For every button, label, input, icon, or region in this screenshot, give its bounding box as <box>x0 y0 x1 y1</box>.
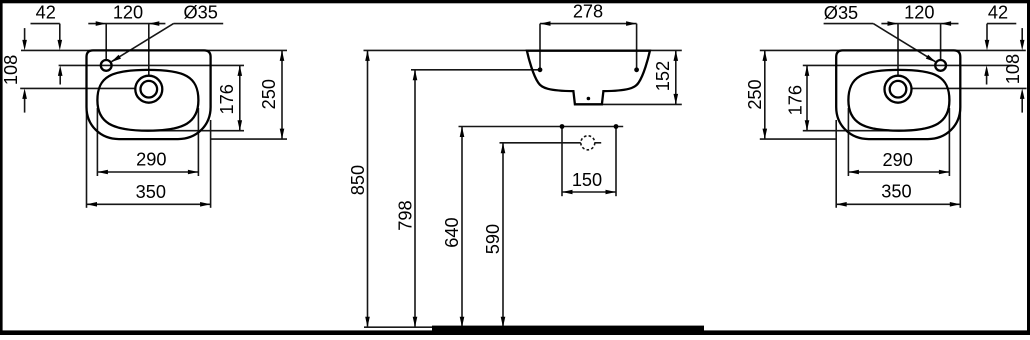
svg-text:798: 798 <box>395 200 415 230</box>
right view: dim 176 line <box>806 65 808 130</box>
right view: dim 290 line <box>848 171 949 173</box>
left view: dim 250 arrow down <box>280 129 285 140</box>
elevation: extension line fixing holes level <box>411 69 540 71</box>
right view: dim 108 lower arrow tail <box>1021 96 1023 112</box>
elevation: dim 152 arrow down <box>674 94 679 105</box>
left view: dim 42 arrow up <box>58 65 63 76</box>
elevation: dim 590 arrow up <box>501 143 506 154</box>
svg-text:176: 176 <box>217 84 237 114</box>
left view: dim 290 line <box>97 171 198 173</box>
right view: dim 290 arrow left <box>939 170 950 175</box>
elevation: left bolt dot <box>560 124 565 129</box>
left view: extension line bowl bottom tangent <box>148 130 244 132</box>
svg-text:Ø35: Ø35 <box>184 3 218 23</box>
left view: extension line bowl right vertical <box>197 108 199 176</box>
left view: extension line basin top edge <box>21 49 287 51</box>
right view: dim 250 arrow down <box>763 129 768 140</box>
right view: dim 250 arrow up <box>763 50 768 61</box>
left view: dim 290 arrow left <box>97 170 108 175</box>
elevation: dim 798 line <box>414 70 416 327</box>
right view: dim 42 lower arrow tail <box>986 75 988 85</box>
svg-text:590: 590 <box>483 224 503 254</box>
elevation: dim 640 arrow up <box>460 127 465 138</box>
left view: dim 250 line <box>281 50 283 139</box>
right view: basin outer outline <box>836 50 960 139</box>
svg-text:120: 120 <box>904 3 934 23</box>
left plan view group <box>20 21 287 208</box>
elevation: extension line waste stub <box>595 142 601 144</box>
elevation: dim 152 line <box>675 50 677 104</box>
left view: extension line basin left vertical <box>86 100 88 208</box>
left view: dim 290 arrow right <box>188 170 199 175</box>
frame border right <box>1027 0 1030 335</box>
right view: drain inner circle <box>890 81 907 98</box>
right view: extension line through tap hole centre <box>803 64 988 66</box>
right view: leader O35 arrowhead <box>926 55 936 63</box>
elevation: dim 590 line <box>502 143 504 327</box>
left view: extension line basin bottom edge <box>211 138 287 140</box>
elevation: extension line bolts level <box>459 126 624 128</box>
right view: leader O35 diagonal <box>873 24 935 62</box>
left view: extension line bowl left vertical <box>96 108 98 176</box>
left view: dim 108 lower arrow tail <box>24 96 26 112</box>
left view: dim 176 arrow up <box>238 65 243 76</box>
svg-text:152: 152 <box>653 61 673 91</box>
left view: basin outer outline <box>87 50 211 139</box>
left view: extension line to drain centre <box>20 87 136 89</box>
centre elevation group <box>364 21 705 331</box>
right plan view group (mirrored) <box>760 21 1027 208</box>
elevation: dim 590 arrow down <box>501 317 506 328</box>
right view: dim 176 arrow up <box>805 65 810 76</box>
left view: dim 350 arrow left <box>87 202 98 207</box>
left view: dim 350 line <box>87 203 211 205</box>
svg-text:42: 42 <box>988 3 1008 23</box>
elevation: dim 150 arrow left <box>562 190 573 195</box>
elevation: dim 850 arrow up <box>365 50 370 61</box>
frame border left <box>0 0 3 335</box>
elevation: dim 850 line <box>367 50 369 327</box>
right view: extension line basin right vertical <box>835 120 837 208</box>
elevation: dim 278 right extension <box>636 24 638 68</box>
right view: extension line bowl left vertical <box>948 108 950 176</box>
right view: dim 350 line <box>836 203 960 205</box>
elevation: dim 150 line <box>562 191 616 193</box>
left view: dim 108 arrow up <box>22 88 27 99</box>
elevation: dim 640 arrow down <box>460 317 465 328</box>
elevation: waste pipe dashed circle <box>581 136 595 150</box>
left view: extension line tap hole vertical <box>105 24 107 61</box>
right view: dim 176 arrow down <box>805 120 810 131</box>
svg-text:278: 278 <box>573 1 603 21</box>
svg-text:150: 150 <box>572 170 602 190</box>
elevation: dim 278 line <box>540 23 637 25</box>
right view: extension line drain vertical <box>897 24 899 77</box>
left view: dim 120 arrow left <box>149 21 160 26</box>
right view: extension line bowl bottom tangent <box>803 130 899 132</box>
elevation: dim 150 left extension <box>561 127 563 197</box>
right view: drain outer circle <box>885 76 912 103</box>
svg-text:350: 350 <box>881 182 911 202</box>
right view: dim 42 upper arrow tail <box>986 24 988 43</box>
right view: leader O35 underline <box>824 23 874 25</box>
left view: dim 108 arrow down <box>22 40 27 51</box>
right view: extension line basin top edge <box>760 49 1026 51</box>
right view: dim 108 upper arrow tail <box>1021 28 1023 42</box>
right view: dim 120 line <box>881 23 958 25</box>
left view: dim 350 arrow right <box>200 202 211 207</box>
svg-text:250: 250 <box>259 79 279 109</box>
right view: dim 42 arrow down <box>985 40 990 51</box>
right view: dim 290 arrow right <box>848 170 859 175</box>
elevation: dim 278 arrow left <box>540 21 551 26</box>
elevation: extension line outlet bottom <box>602 103 682 105</box>
left view: leader O35 diagonal <box>112 24 174 62</box>
right view: extension line tap hole vertical <box>940 24 942 61</box>
right view: dim 42 arrow up <box>984 65 989 76</box>
left view: dim 250 arrow up <box>280 50 285 61</box>
elevation: right bolt dot <box>614 124 619 129</box>
right view: extension line to drain centre <box>911 87 1027 89</box>
left view: tap hole circle <box>101 60 112 71</box>
right view: extension line basin left vertical <box>959 100 961 208</box>
right view: inner bowl outline <box>848 70 949 131</box>
left view: extension line basin right vertical <box>210 120 212 208</box>
elevation: extension line rim level <box>364 49 682 51</box>
elevation: dim 278 left extension <box>539 24 541 68</box>
elevation: dim 278 arrow right <box>626 21 637 26</box>
right view: extension line basin bottom edge <box>760 138 836 140</box>
left view: extension line through tap hole centre <box>59 64 244 66</box>
left view: extension line drain vertical <box>148 24 150 77</box>
frame border top <box>0 0 1030 3</box>
left view: leader O35 underline <box>174 23 224 25</box>
elevation: dim 152 arrow up <box>674 50 679 61</box>
elevation: extension line waste level <box>500 142 581 144</box>
left view: dim 176 line <box>239 65 241 130</box>
frame border bottom <box>0 330 1030 335</box>
right view: tap line extension stub <box>988 64 1013 66</box>
left view: dim 108 upper arrow tail <box>24 28 26 42</box>
left view: dim 42 arrow down <box>58 40 63 51</box>
right view: tap hole circle <box>935 60 946 71</box>
elevation: floor line thick bar <box>432 326 704 332</box>
elevation: basin front outline <box>527 51 650 105</box>
left view: dim 120 line <box>88 23 165 25</box>
right view: dim 350 arrow left <box>950 202 961 207</box>
right view: extension line bowl right vertical <box>847 108 849 176</box>
left view: drain outer circle <box>135 76 162 103</box>
svg-text:108: 108 <box>1 55 21 85</box>
elevation: dim 150 right extension <box>615 127 617 197</box>
left view: drain inner circle <box>141 81 158 98</box>
right view: dim 108 arrow up <box>1020 88 1025 99</box>
left view: leader O35 arrowhead <box>111 55 121 63</box>
elevation: dim 850 arrow down <box>365 317 370 328</box>
elevation: dim 798 arrow up <box>413 70 418 81</box>
svg-text:120: 120 <box>113 3 143 23</box>
svg-text:176: 176 <box>785 85 805 115</box>
right view: dim 350 arrow right <box>836 202 847 207</box>
elevation: outlet centre dot <box>587 97 591 101</box>
svg-text:290: 290 <box>136 150 166 170</box>
elevation: dim 150 arrow right <box>606 190 617 195</box>
left view: dim 42 lower arrow tail <box>59 75 61 85</box>
left view: inner bowl outline <box>97 70 198 131</box>
elevation: dim 640 line <box>461 127 463 328</box>
elevation: right fixing hole dot <box>634 67 639 72</box>
svg-text:42: 42 <box>36 3 56 23</box>
svg-text:108: 108 <box>1003 54 1023 84</box>
left view: dim 176 arrow down <box>238 120 243 131</box>
svg-text:250: 250 <box>745 79 765 109</box>
right view: dim 120 arrow right <box>941 21 952 26</box>
svg-text:Ø35: Ø35 <box>824 3 858 23</box>
svg-text:350: 350 <box>136 182 166 202</box>
svg-text:640: 640 <box>442 217 462 247</box>
right view: dim 108 arrow down <box>1020 40 1025 51</box>
left view: dim 42 label leader <box>31 23 60 25</box>
elevation: dim 798 arrow down <box>413 317 418 328</box>
left view: dim 120 arrow right <box>96 21 107 26</box>
elevation: left fixing hole dot <box>538 67 543 72</box>
elevation: floor line thin <box>364 326 432 328</box>
right view: dim 120 arrow left <box>888 21 899 26</box>
svg-text:290: 290 <box>883 150 913 170</box>
right view: dim 250 line <box>764 50 766 139</box>
svg-text:850: 850 <box>348 165 368 195</box>
right view: dim 42 label leader <box>987 23 1016 25</box>
left view: dim 42 upper arrow tail <box>59 24 61 43</box>
